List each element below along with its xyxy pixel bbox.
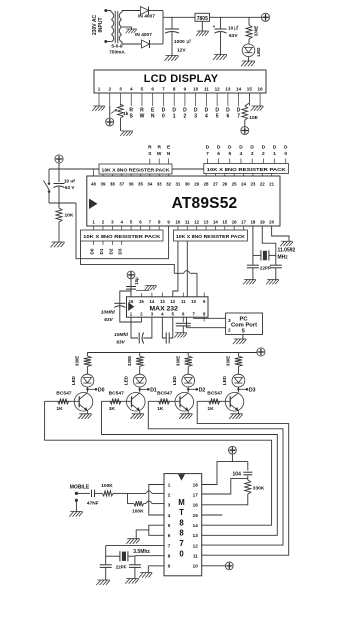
svg-text:6: 6 bbox=[168, 533, 171, 538]
svg-text:33: 33 bbox=[157, 182, 162, 187]
svg-text:3: 3 bbox=[168, 503, 171, 508]
svg-text:D: D bbox=[239, 145, 243, 151]
svg-text:14: 14 bbox=[236, 87, 242, 92]
svg-text:18: 18 bbox=[193, 482, 199, 487]
svg-text:D: D bbox=[217, 145, 221, 151]
svg-text:10K X 8NO RESISTER PACK: 10K X 8NO RESISTER PACK bbox=[83, 234, 161, 239]
svg-text:1K: 1K bbox=[207, 406, 214, 412]
svg-text:330K: 330K bbox=[253, 486, 265, 492]
svg-text:IN 4007: IN 4007 bbox=[138, 14, 155, 20]
svg-text:2: 2 bbox=[228, 328, 231, 334]
svg-text:16: 16 bbox=[129, 299, 134, 304]
svg-text:1K: 1K bbox=[157, 406, 164, 412]
svg-text:12V: 12V bbox=[177, 48, 186, 54]
svg-text:1: 1 bbox=[173, 114, 176, 120]
svg-text:BC547: BC547 bbox=[157, 390, 173, 396]
svg-text:R: R bbox=[157, 145, 161, 151]
svg-text:11: 11 bbox=[181, 299, 186, 304]
svg-text:10: 10 bbox=[193, 87, 199, 92]
svg-text:8: 8 bbox=[168, 553, 171, 558]
svg-text:1K: 1K bbox=[56, 406, 63, 412]
svg-text:1: 1 bbox=[273, 151, 276, 157]
svg-text:12: 12 bbox=[170, 299, 175, 304]
svg-text:4: 4 bbox=[168, 513, 171, 518]
svg-text:16: 16 bbox=[193, 503, 199, 508]
svg-text:13: 13 bbox=[193, 533, 199, 538]
svg-text:9: 9 bbox=[168, 564, 171, 569]
svg-text:D: D bbox=[228, 145, 232, 151]
svg-text:M: M bbox=[178, 498, 185, 507]
svg-text:5: 5 bbox=[242, 328, 245, 334]
svg-text:40: 40 bbox=[91, 182, 96, 187]
svg-text:39: 39 bbox=[101, 182, 106, 187]
svg-text:BC547: BC547 bbox=[207, 390, 223, 396]
svg-text:10K X 8NO RESISTER PACK: 10K X 8NO RESISTER PACK bbox=[176, 234, 246, 239]
svg-text:10: 10 bbox=[228, 26, 234, 32]
svg-text:5: 5 bbox=[168, 523, 171, 528]
svg-text:D: D bbox=[284, 145, 288, 151]
svg-text:12: 12 bbox=[194, 220, 199, 225]
svg-text:10: 10 bbox=[191, 299, 196, 304]
svg-text:7: 7 bbox=[179, 539, 183, 548]
svg-text:16: 16 bbox=[232, 220, 237, 225]
svg-text:15: 15 bbox=[139, 299, 144, 304]
svg-text:16: 16 bbox=[258, 87, 264, 92]
svg-text:25: 25 bbox=[232, 182, 237, 187]
svg-text:2: 2 bbox=[168, 492, 171, 497]
svg-text:6: 6 bbox=[151, 87, 154, 92]
svg-text:7: 7 bbox=[237, 114, 240, 120]
svg-text:8: 8 bbox=[179, 518, 184, 527]
svg-text:17: 17 bbox=[193, 492, 199, 497]
svg-text:22: 22 bbox=[260, 182, 265, 187]
svg-text:LCD DISPLAY: LCD DISPLAY bbox=[144, 73, 219, 85]
svg-text:D3: D3 bbox=[249, 387, 256, 393]
svg-text:µf: µf bbox=[187, 39, 192, 45]
svg-text:10Mfd: 10Mfd bbox=[101, 310, 116, 316]
svg-text:µf: µf bbox=[234, 26, 239, 32]
svg-text:5: 5 bbox=[228, 151, 231, 157]
svg-text:63 V: 63 V bbox=[65, 185, 75, 190]
svg-text:10 uf: 10 uf bbox=[64, 179, 75, 184]
svg-text:35: 35 bbox=[138, 182, 143, 187]
svg-text:T: T bbox=[179, 508, 184, 517]
svg-text:D0: D0 bbox=[90, 248, 95, 254]
svg-text:330E: 330E bbox=[226, 356, 231, 366]
svg-text:7: 7 bbox=[206, 151, 209, 157]
svg-text:63V: 63V bbox=[116, 339, 125, 345]
svg-text:26: 26 bbox=[222, 182, 227, 187]
svg-text:D2: D2 bbox=[199, 387, 206, 393]
svg-text:7: 7 bbox=[168, 543, 171, 548]
svg-text:750mA: 750mA bbox=[109, 50, 125, 56]
svg-text:12: 12 bbox=[215, 87, 221, 92]
svg-text:8: 8 bbox=[179, 529, 184, 538]
svg-text:28: 28 bbox=[204, 182, 209, 187]
svg-text:D: D bbox=[262, 145, 266, 151]
svg-text:BC547: BC547 bbox=[109, 390, 125, 396]
svg-text:20: 20 bbox=[269, 220, 274, 225]
svg-text:+: + bbox=[213, 24, 216, 29]
svg-text:15: 15 bbox=[247, 87, 253, 92]
svg-text:330E: 330E bbox=[75, 356, 80, 366]
svg-text:2: 2 bbox=[262, 151, 265, 157]
svg-text:14: 14 bbox=[150, 299, 155, 304]
svg-text:5: 5 bbox=[216, 114, 219, 120]
svg-text:7805: 7805 bbox=[197, 16, 208, 22]
svg-text:5: 5 bbox=[141, 87, 144, 92]
svg-text:13: 13 bbox=[204, 220, 209, 225]
svg-text:10Mfd: 10Mfd bbox=[114, 332, 129, 338]
svg-text:4: 4 bbox=[240, 151, 243, 157]
svg-text:104: 104 bbox=[233, 471, 242, 477]
svg-text:11: 11 bbox=[193, 553, 198, 558]
svg-text:MHz: MHz bbox=[278, 255, 289, 261]
svg-text:LED: LED bbox=[256, 47, 261, 57]
svg-text:10K X 8NO RESISTER PACK: 10K X 8NO RESISTER PACK bbox=[207, 167, 287, 172]
svg-text:17: 17 bbox=[241, 220, 246, 225]
svg-text:LED: LED bbox=[172, 375, 177, 385]
svg-text:13: 13 bbox=[160, 299, 165, 304]
svg-text:D: D bbox=[273, 145, 277, 151]
svg-text:27: 27 bbox=[213, 182, 218, 187]
svg-text:3: 3 bbox=[251, 151, 254, 157]
svg-text:11: 11 bbox=[185, 220, 190, 225]
svg-text:3.5Mhz: 3.5Mhz bbox=[133, 549, 150, 555]
svg-text:D1: D1 bbox=[150, 387, 157, 393]
svg-text:MOBILE: MOBILE bbox=[70, 485, 90, 491]
svg-text:D3: D3 bbox=[118, 248, 123, 254]
svg-text:9: 9 bbox=[184, 87, 187, 92]
svg-text:1: 1 bbox=[168, 482, 171, 487]
svg-text:100K: 100K bbox=[132, 509, 144, 515]
svg-text:38: 38 bbox=[110, 182, 115, 187]
svg-text:10µ: 10µ bbox=[134, 277, 139, 285]
svg-text:7: 7 bbox=[162, 87, 165, 92]
svg-text:21: 21 bbox=[269, 182, 274, 187]
svg-text:11.0592: 11.0592 bbox=[278, 248, 296, 254]
svg-text:2: 2 bbox=[184, 114, 187, 120]
svg-text:36: 36 bbox=[129, 182, 134, 187]
svg-text:2: 2 bbox=[108, 87, 111, 92]
svg-text:W: W bbox=[157, 151, 162, 157]
svg-text:47NF: 47NF bbox=[87, 501, 99, 507]
svg-text:D0: D0 bbox=[98, 387, 105, 393]
svg-text:4: 4 bbox=[205, 114, 208, 120]
svg-text:29: 29 bbox=[194, 182, 199, 187]
svg-text:BC547: BC547 bbox=[56, 390, 72, 396]
svg-text:LED: LED bbox=[222, 375, 227, 385]
svg-text:13: 13 bbox=[225, 87, 231, 92]
svg-text:330E: 330E bbox=[254, 26, 259, 37]
svg-text:0: 0 bbox=[284, 151, 287, 157]
svg-text:12: 12 bbox=[193, 543, 199, 548]
svg-text:N: N bbox=[167, 151, 171, 157]
svg-text:INPUT: INPUT bbox=[98, 18, 104, 33]
svg-text:LED: LED bbox=[71, 375, 76, 385]
svg-text:IN 4007: IN 4007 bbox=[135, 32, 152, 38]
svg-text:6: 6 bbox=[217, 151, 220, 157]
svg-text:1: 1 bbox=[98, 87, 101, 92]
svg-text:34: 34 bbox=[147, 182, 152, 187]
svg-text:15: 15 bbox=[193, 513, 199, 518]
svg-text:D2: D2 bbox=[108, 248, 113, 254]
svg-text:4: 4 bbox=[130, 87, 133, 92]
svg-text:22PF: 22PF bbox=[116, 564, 127, 569]
svg-text:5-0-9: 5-0-9 bbox=[111, 44, 123, 50]
svg-text:24: 24 bbox=[241, 182, 246, 187]
svg-text:15: 15 bbox=[222, 220, 227, 225]
svg-text:LED: LED bbox=[123, 375, 128, 385]
svg-text:10: 10 bbox=[175, 220, 180, 225]
svg-text:37: 37 bbox=[119, 182, 124, 187]
svg-text:1k: 1k bbox=[123, 111, 129, 117]
svg-text:1K: 1K bbox=[109, 406, 116, 412]
svg-text:14: 14 bbox=[213, 220, 218, 225]
svg-text:10E: 10E bbox=[249, 115, 258, 121]
svg-text:22PF: 22PF bbox=[260, 265, 271, 270]
svg-text:0: 0 bbox=[162, 114, 165, 120]
svg-text:W: W bbox=[140, 114, 145, 120]
svg-text:3: 3 bbox=[228, 318, 231, 324]
svg-text:0: 0 bbox=[179, 549, 184, 558]
svg-text:6: 6 bbox=[226, 114, 229, 120]
svg-text:32: 32 bbox=[166, 182, 171, 187]
svg-text:30: 30 bbox=[185, 182, 190, 187]
svg-text:AT89S52: AT89S52 bbox=[172, 195, 238, 212]
svg-text:N: N bbox=[151, 114, 155, 120]
svg-text:D: D bbox=[206, 145, 210, 151]
svg-text:63V: 63V bbox=[229, 33, 238, 39]
svg-text:100K: 100K bbox=[101, 483, 113, 489]
svg-text:10K: 10K bbox=[65, 213, 74, 219]
svg-text:D: D bbox=[250, 145, 254, 151]
svg-text:18: 18 bbox=[250, 220, 255, 225]
svg-text:19: 19 bbox=[260, 220, 265, 225]
svg-text:3: 3 bbox=[119, 87, 122, 92]
svg-text:11: 11 bbox=[204, 87, 209, 92]
svg-text:63V: 63V bbox=[104, 317, 113, 323]
svg-text:23: 23 bbox=[250, 182, 255, 187]
svg-text:10K X 8NO RESISTER PACK: 10K X 8NO RESISTER PACK bbox=[102, 167, 171, 172]
svg-text:8: 8 bbox=[173, 87, 176, 92]
svg-text:10: 10 bbox=[193, 564, 199, 569]
svg-text:31: 31 bbox=[175, 182, 180, 187]
svg-text:D1: D1 bbox=[99, 248, 104, 254]
svg-text:1000: 1000 bbox=[174, 39, 185, 45]
svg-text:R: R bbox=[148, 145, 152, 151]
svg-text:3: 3 bbox=[194, 114, 197, 120]
svg-text:330E: 330E bbox=[127, 356, 132, 366]
svg-text:14: 14 bbox=[193, 523, 199, 528]
svg-text:330E: 330E bbox=[176, 356, 181, 366]
